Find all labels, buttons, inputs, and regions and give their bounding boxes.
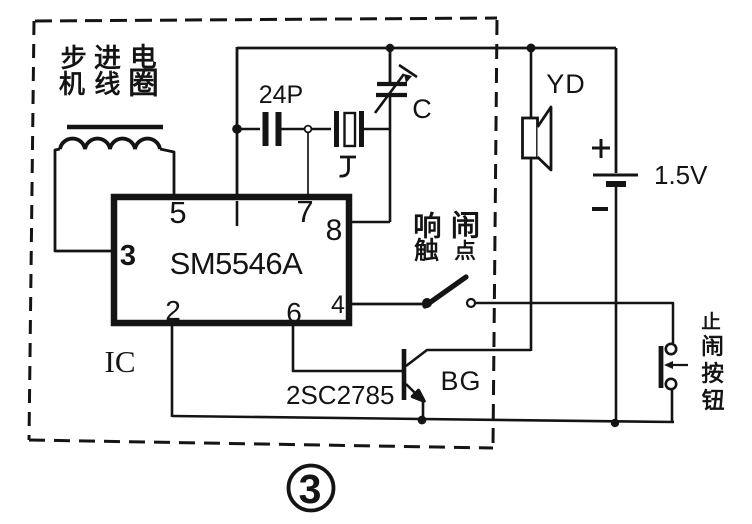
- wire top rail to trimmer top plate: [389, 48, 392, 82]
- wire: IC pin 2 down: [171, 326, 174, 417]
- node: junction 24P branch: [232, 124, 242, 134]
- wire: coil left lead to IC pin 3: [55, 149, 112, 251]
- + label: [592, 139, 610, 158]
- figure number 3 (circled): [289, 466, 334, 513]
- wire: top supply rail: [237, 47, 616, 50]
- svg-text:6: 6: [286, 297, 302, 328]
- svg-text:5: 5: [169, 195, 186, 230]
- push button SB bottom contact: [666, 379, 676, 389]
- - label: [592, 207, 608, 211]
- wire 24P to crystal: [280, 128, 331, 130]
- svg-text:7: 7: [296, 194, 313, 229]
- svg-text:2SC2785: 2SC2785: [286, 380, 394, 410]
- svg-text:3: 3: [120, 240, 136, 272]
- wire battery - down to bottom rail: [615, 187, 618, 423]
- label: stop-alarm button (Chinese, vertical): [702, 312, 724, 410]
- switch S1 blade: [425, 277, 466, 306]
- pin 1 stub tick: [236, 201, 239, 226]
- inductor L coil: [60, 139, 160, 149]
- svg-text:2: 2: [165, 295, 181, 326]
- wire top rail down to speaker: [530, 48, 533, 118]
- svg-text:4: 4: [331, 291, 345, 319]
- svg-text:BG: BG: [440, 366, 481, 396]
- wire button to bottom rail: [671, 389, 674, 422]
- op-amp/IC U1 SM5546A body: [114, 197, 349, 323]
- trimmer capacitor C plates: [376, 84, 407, 95]
- speaker YD: [523, 107, 552, 170]
- transistor Q1 base bar: [402, 349, 407, 400]
- wire: IC pin 4 to switch pivot: [348, 303, 425, 306]
- svg-text:C: C: [412, 94, 432, 124]
- wire: bottom return rail: [172, 416, 674, 422]
- svg-text:3: 3: [299, 466, 322, 512]
- wire: junction down to IC pin 7: [307, 133, 309, 197]
- inductor core bar: [67, 125, 163, 130]
- wire crystal to trimmer branch: [362, 128, 390, 130]
- crystal designator J: [340, 157, 357, 176]
- svg-text:8: 8: [326, 214, 343, 247]
- crystal J (quartz): [337, 111, 362, 147]
- trimmer arrow: [375, 65, 417, 113]
- switch S1 open contact: [467, 299, 475, 307]
- node: small open junction to pin 7: [305, 126, 312, 133]
- dashed enclosure border (clock movement boundary): [29, 18, 497, 448]
- wire: switch to stop button: [475, 303, 673, 343]
- wire: IC pin 6 to transistor base: [293, 326, 402, 371]
- wire to 24P left plate: [237, 128, 260, 130]
- svg-text:YD: YD: [546, 69, 586, 99]
- wire trimmer bottom to pin 8 branch: [389, 95, 392, 222]
- wire: oscillator branch down to pin 1/24P junction: [236, 47, 239, 200]
- svg-text:1.5V: 1.5V: [654, 160, 708, 190]
- transistor Q1 emitter with arrow: [406, 384, 420, 398]
- transistor Q1 collector: [406, 350, 531, 366]
- svg-text:IC: IC: [105, 344, 136, 379]
- node: junction top rail / speaker YD: [527, 44, 536, 53]
- wire: coil right lead to IC pin 5: [160, 149, 174, 197]
- node: emitter junction: [418, 416, 427, 425]
- wire top rail to battery +: [615, 48, 618, 173]
- label: alarm contact (Chinese): [415, 211, 478, 261]
- battery negative plate: [606, 181, 626, 187]
- capacitor 24P: [266, 112, 279, 146]
- wire speaker to transistor collector: [530, 158, 533, 351]
- switch S1 pivot: [422, 298, 432, 308]
- battery positive plate: [593, 174, 638, 177]
- svg-text:24P: 24P: [259, 81, 303, 109]
- push button SB top contact: [666, 344, 676, 354]
- node: battery junction: [611, 419, 619, 427]
- node: junction top rail / trimmer C: [386, 44, 394, 52]
- wire: IC pin 8 stub: [348, 221, 390, 224]
- push button SB actuate arrow: [670, 364, 688, 366]
- label: stepper motor coil (Chinese): [60, 44, 157, 96]
- push button SB actuator bar: [659, 346, 664, 388]
- svg-text:SM5546A: SM5546A: [170, 246, 303, 281]
